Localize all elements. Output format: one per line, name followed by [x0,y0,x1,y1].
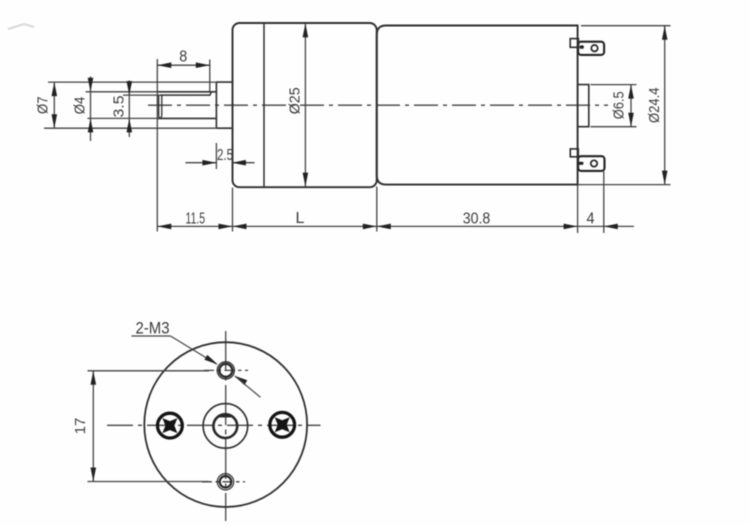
M3 hole bottom (inner) [220,476,232,488]
17 extension lines [88,370,210,372]
Ø7 dimension line [53,82,55,128]
svg-text:L: L [296,210,305,227]
2-M3 leader line [171,336,217,364]
Ø7 bearing boss [216,82,232,128]
horizontal centerline of face view [107,424,321,426]
terminal hole bottom [591,160,597,166]
svg-text:Ø7: Ø7 [35,96,52,114]
hub outer circle [203,404,248,449]
Ø25 dimension line [304,23,306,186]
svg-text:Ø25: Ø25 [287,87,304,114]
Ø4 extension lines [86,91,158,93]
17 dimension line [92,371,94,482]
2-M3 leader underline [132,335,171,337]
terminal notch top [570,39,578,48]
svg-text:3.5: 3.5 [110,96,127,118]
svg-text:Ø24.4: Ø24.4 [646,88,663,124]
svg-text:Ø6.5: Ø6.5 [611,91,628,119]
terminal crimp mark bottom [579,162,583,165]
gearbox body [233,23,377,187]
chain arrows [157,224,171,230]
M3 hole top (inner) [219,364,232,377]
terminal tab bottom [578,156,604,171]
svg-text:2-M3: 2-M3 [136,320,170,338]
Ø24.4 dimension line [664,26,666,185]
2.5 dimension line with outside arrows [186,162,217,164]
terminal hole top [591,45,597,51]
shaft hole inner circle [213,414,237,438]
vertical centerline of face view [225,331,227,521]
svg-text:Ø4: Ø4 [72,97,89,115]
Ø24.4 extension lines [581,25,671,27]
gearbox face outer circle [144,342,307,507]
M3 hole top (outer thread circle) [217,362,234,379]
svg-text:2.5: 2.5 [217,147,233,164]
shaft flat line with end chamfer [160,92,212,95]
shaft hole flat chord [218,415,233,417]
2-M3 leader arrow upper [204,355,217,365]
shaft Ø4 top line [157,91,216,93]
terminal notch bottom [570,149,578,157]
dimension 8 extension line left (through shaft tip) [156,59,158,232]
2.5 extension line [215,143,217,169]
svg-text:4: 4 [587,210,595,227]
dimension 8 arrows [157,62,171,68]
screw left [158,413,183,438]
terminal crimp mark top [580,45,584,48]
dimension 8 line [157,64,210,66]
svg-text:11.5: 11.5 [186,211,206,228]
3.5 extension line (flat) [123,94,160,96]
rear bearing boss Ø6.5 [578,85,589,127]
2-M3 leader arrow lower [234,376,247,386]
dimension 8 extension line right [209,60,211,93]
faint scan smudge top-left [8,24,34,29]
terminal tab top [578,42,604,55]
motor body [377,26,578,185]
M3 hole bottom (outer thread circle) [217,474,233,490]
Ø4 dimension line with outside arrows [90,77,92,142]
3.5 dimension line with outside arrows [128,81,130,138]
gearbox front plate line [263,24,265,187]
Ø7 arrows [52,82,58,96]
top hole horizontal centerline [204,369,248,371]
Ø7 extension lines [48,81,216,83]
svg-text:8: 8 [179,48,187,65]
bottom hole horizontal centerline [202,481,245,483]
bottom dimension chain line [157,225,634,227]
bottom dimension chain extension lines [232,188,234,232]
shaft tip rounding capsule [159,95,162,118]
Ø6.5 dimension line [630,85,632,127]
svg-text:17: 17 [72,418,89,435]
screw right [270,412,295,437]
centerline main axis [148,104,608,106]
Ø6.5 extension lines [591,84,637,86]
shaft Ø4 bottom line [157,117,216,119]
2-M3 leader tail [235,376,261,397]
svg-text:30.8: 30.8 [463,211,491,228]
